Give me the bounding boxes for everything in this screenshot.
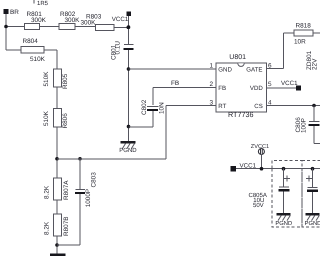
- svg-text:R804: R804: [23, 38, 39, 45]
- svg-text:300K: 300K: [31, 17, 47, 24]
- svg-text:R806: R806: [62, 113, 69, 129]
- svg-text:510K: 510K: [43, 110, 50, 126]
- svg-text:100P: 100P: [301, 118, 308, 133]
- svg-text:8.2K: 8.2K: [44, 185, 51, 199]
- svg-text:R818: R818: [296, 23, 312, 30]
- svg-text:RT: RT: [218, 103, 226, 110]
- svg-text:BR: BR: [10, 9, 19, 16]
- svg-text:8.2K: 8.2K: [44, 221, 51, 235]
- svg-text:510K: 510K: [30, 56, 46, 63]
- svg-text:VCC1: VCC1: [281, 80, 298, 87]
- svg-text:FB: FB: [171, 80, 179, 87]
- svg-text:U801: U801: [229, 54, 246, 61]
- svg-text:PGND: PGND: [275, 220, 292, 227]
- svg-text:1R5: 1R5: [37, 0, 49, 7]
- svg-text:300K: 300K: [65, 17, 81, 24]
- svg-text:FB: FB: [218, 85, 226, 92]
- svg-text:R807A: R807A: [63, 180, 70, 200]
- svg-text:R805: R805: [62, 73, 69, 89]
- svg-text:3: 3: [210, 100, 214, 107]
- svg-text:1000P: 1000P: [85, 189, 92, 207]
- svg-text:PGND: PGND: [305, 220, 320, 227]
- svg-text:5: 5: [268, 81, 272, 88]
- svg-text:GND: GND: [218, 66, 232, 73]
- svg-text:CS: CS: [254, 103, 262, 110]
- svg-text:C802: C802: [141, 99, 148, 115]
- svg-text:GATE: GATE: [246, 66, 262, 73]
- svg-text:C803: C803: [90, 172, 97, 188]
- svg-text:22V: 22V: [312, 58, 319, 70]
- svg-text:10R: 10R: [294, 39, 306, 46]
- svg-text:RT7736: RT7736: [228, 110, 253, 119]
- svg-text:300K: 300K: [81, 20, 97, 27]
- svg-text:10N: 10N: [159, 102, 166, 114]
- svg-text:0.1U: 0.1U: [114, 41, 121, 55]
- svg-text:2: 2: [210, 81, 214, 88]
- svg-text:50V: 50V: [253, 202, 264, 209]
- svg-text:PGND: PGND: [119, 147, 137, 154]
- svg-text:VCC1: VCC1: [112, 16, 129, 23]
- svg-text:1: 1: [210, 63, 214, 70]
- svg-text:510K: 510K: [43, 71, 50, 87]
- svg-text:R807B: R807B: [63, 216, 70, 236]
- svg-text:VDD: VDD: [250, 85, 263, 92]
